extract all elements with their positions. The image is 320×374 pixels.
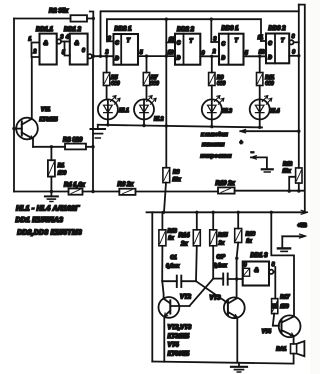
LED HL1 bbox=[98, 96, 120, 125]
wire top-left rail to R2 bbox=[14, 18, 71, 20]
svg-text:8: 8 bbox=[292, 34, 295, 40]
wire bottom rail bbox=[152, 362, 293, 364]
node rail B at x166 bbox=[165, 18, 168, 21]
svg-text:VT1: VT1 bbox=[41, 107, 50, 113]
resistor R6 bbox=[119, 189, 218, 195]
svg-text:КТ315Б: КТ315Б bbox=[40, 117, 59, 123]
svg-text:3: 3 bbox=[61, 35, 64, 41]
transistor Q2 VT2 bbox=[159, 281, 180, 362]
wire clock line DD1.2 out to DD2.1 bbox=[92, 55, 114, 57]
resistor R7 bbox=[143, 56, 149, 99]
wire DD1.1 out to DD1.2 in bbox=[61, 41, 70, 43]
resistor R5 bbox=[103, 56, 109, 99]
svg-text:12: 12 bbox=[259, 50, 265, 56]
resistor R8 bbox=[163, 168, 170, 213]
svg-text:к выводам: к выводам bbox=[201, 132, 228, 138]
wire riser x93 from top tick down to clock line bbox=[90, 12, 94, 57]
wire bubble to right vertical bbox=[294, 41, 299, 43]
wire supply arrow 2 bbox=[282, 234, 306, 238]
wire long vertical x93 bbox=[92, 56, 94, 191]
node rail A left leg bottom bbox=[99, 55, 102, 58]
node rail VT4 feed bbox=[270, 211, 273, 214]
wire DD2.1 Q out bbox=[138, 55, 175, 57]
wire DD1.3 out to R17 bbox=[273, 267, 275, 299]
svg-text:D: D bbox=[268, 55, 272, 61]
flip-flop DD2.1 bbox=[114, 34, 139, 65]
node R7 tap bbox=[145, 54, 148, 57]
resistor R9 bbox=[209, 56, 215, 99]
svg-text:КТ605Б: КТ605Б bbox=[168, 351, 190, 357]
svg-text:DD2 2: DD2 2 bbox=[177, 27, 195, 33]
flip-flop DD2.2 bbox=[175, 34, 200, 65]
svg-text:680: 680 bbox=[217, 81, 226, 87]
node R11 tap bbox=[258, 55, 261, 58]
svg-text:R17: R17 bbox=[280, 294, 289, 300]
wire minus arrow lead bbox=[251, 156, 267, 169]
op-amp U3 gate DD1.3 bbox=[243, 262, 269, 286]
svg-text:микросхем: микросхем bbox=[201, 153, 232, 159]
svg-text:D: D bbox=[222, 56, 226, 62]
wire diagonal C1 to VT3 base bbox=[196, 281, 227, 302]
pin 3 stub DD2.1 bbox=[107, 40, 114, 42]
resistor R10 bbox=[218, 187, 304, 193]
resistor R1 bbox=[48, 147, 55, 192]
svg-text:R3 820: R3 820 bbox=[63, 138, 83, 144]
wire VT3 collector vertical bbox=[236, 258, 238, 298]
node R2-right junction bbox=[92, 17, 95, 20]
svg-text:DD1 3: DD1 3 bbox=[251, 253, 269, 259]
node pin9 on vertical bbox=[297, 54, 300, 57]
svg-text:DD1.1: DD1.1 bbox=[36, 27, 54, 33]
svg-text:DD2 1: DD2 1 bbox=[115, 27, 133, 33]
svg-text:R6 2к: R6 2к bbox=[118, 182, 135, 188]
node rail R14 bbox=[195, 211, 198, 214]
svg-text:&: & bbox=[44, 41, 48, 47]
svg-text:R14: R14 bbox=[179, 233, 191, 239]
svg-text:R2 35к: R2 35к bbox=[49, 9, 69, 15]
node DD1.3 output bubble bbox=[269, 270, 273, 274]
LED HL3 bbox=[202, 96, 224, 127]
transistor Q1 VT1 bbox=[14, 57, 38, 147]
svg-text:4: 4 bbox=[65, 35, 69, 41]
node rail B at x211 bbox=[210, 18, 213, 21]
svg-text:6: 6 bbox=[82, 48, 85, 54]
svg-text:D: D bbox=[115, 56, 119, 62]
speaker BA1 bbox=[291, 341, 305, 363]
capacitor C2 bbox=[213, 274, 243, 285]
svg-text:5: 5 bbox=[62, 50, 65, 56]
node rail R1 bottom bbox=[50, 190, 53, 193]
svg-text:51: 51 bbox=[272, 304, 278, 310]
flip-flop DD3.1 bbox=[219, 34, 244, 65]
wire bottom section top rail bbox=[147, 211, 304, 213]
wire right outer vertical bbox=[299, 5, 305, 212]
LED HL4 bbox=[250, 96, 272, 128]
resistor R14 bbox=[193, 212, 200, 281]
node HL3 bottom bbox=[210, 125, 213, 128]
svg-text:DD3 1: DD3 1 bbox=[222, 26, 240, 32]
svg-text:8: 8 bbox=[272, 262, 275, 268]
node HL2 bottom bbox=[142, 124, 145, 127]
arrow +5V right bbox=[301, 210, 307, 214]
node x166 on common line bbox=[165, 124, 168, 127]
svg-text:BA1: BA1 bbox=[276, 347, 286, 353]
svg-text:HL1 - HL4 АЛ102Г: HL1 - HL4 АЛ102Г bbox=[16, 206, 80, 213]
node VT1 base on frame bbox=[12, 127, 15, 130]
svg-text:КТ315Б: КТ315Б bbox=[168, 334, 190, 340]
ground chassis bar minus bbox=[262, 169, 273, 172]
node rail R8 bbox=[162, 211, 165, 214]
svg-text:R13: R13 bbox=[168, 229, 177, 235]
wire rail A feedback top bbox=[101, 11, 299, 56]
pin 11 stub DD2.2 bbox=[166, 41, 175, 43]
svg-text:R10 2к: R10 2к bbox=[216, 181, 236, 187]
svg-text:&: & bbox=[254, 268, 258, 274]
node DD1.2 output bubble bbox=[88, 54, 92, 58]
svg-text:9: 9 bbox=[292, 50, 295, 56]
svg-text:DD1 К155ЛА3: DD1 К155ЛА3 bbox=[16, 217, 64, 224]
resistor R16 bbox=[235, 212, 242, 258]
resistor R4 bbox=[69, 189, 120, 195]
wire pin 9 stub bbox=[289, 55, 299, 57]
node collector R16 junction bbox=[235, 257, 238, 260]
svg-text:VT3: VT3 bbox=[210, 296, 222, 302]
svg-text:1к: 1к bbox=[246, 239, 252, 245]
wire right inner vertical bbox=[298, 5, 300, 168]
svg-text:C: C bbox=[177, 40, 181, 46]
pin 3 stub DD3.1 bbox=[211, 41, 219, 43]
node DD1.1 output bubble bbox=[57, 39, 61, 43]
svg-text:680: 680 bbox=[111, 81, 120, 87]
node rail x93 bbox=[91, 190, 94, 193]
svg-text:R4 1,6к: R4 1,6к bbox=[64, 182, 86, 188]
resistor R2 bbox=[71, 15, 94, 21]
op-amp U1 gate DD1.1 body bbox=[40, 34, 57, 65]
svg-text:&: & bbox=[75, 41, 79, 47]
ground at common line left end bbox=[91, 125, 106, 138]
svg-text:DD1 2: DD1 2 bbox=[64, 27, 82, 33]
LED HL2 bbox=[134, 96, 156, 125]
transistor Q4 VT4 bbox=[279, 315, 301, 344]
svg-text:2: 2 bbox=[105, 50, 109, 56]
node R12 tap bottom bbox=[288, 189, 291, 192]
node rail R16 bbox=[237, 211, 240, 214]
svg-text:10к: 10к bbox=[173, 177, 182, 183]
svg-text:0,1мк: 0,1мк bbox=[166, 263, 180, 269]
svg-text:180: 180 bbox=[58, 171, 67, 177]
node x166 on Q wire bbox=[165, 54, 168, 57]
svg-text:D: D bbox=[177, 56, 181, 62]
svg-text:DD2,DD3 К155ТМ3: DD2,DD3 К155ТМ3 bbox=[17, 229, 82, 236]
wire long vertical x166 bbox=[165, 19, 167, 168]
input square DD1.3 bbox=[243, 268, 249, 276]
svg-text:1: 1 bbox=[29, 37, 32, 43]
wire LED common line bbox=[98, 125, 262, 128]
wire bottom rail left bbox=[14, 191, 69, 193]
svg-text:С1: С1 bbox=[170, 255, 177, 261]
svg-text:DD3 2: DD3 2 bbox=[269, 26, 287, 32]
ground chassis at arrow2 bbox=[278, 236, 290, 251]
pin 11 stub DD3.2 bbox=[261, 40, 266, 42]
wire rail B clock distribution bbox=[107, 19, 261, 42]
node R9 tap bbox=[210, 55, 213, 58]
svg-text:12: 12 bbox=[168, 50, 174, 56]
node clock x93 bbox=[92, 55, 95, 58]
svg-text:C: C bbox=[268, 41, 272, 47]
svg-text:R16: R16 bbox=[246, 232, 255, 238]
wire plus supply arrow to chips bbox=[240, 130, 298, 133]
resistor R3 bbox=[33, 144, 93, 150]
resistor R12 bbox=[289, 168, 302, 191]
svg-text:HL2: HL2 bbox=[154, 117, 164, 123]
node R3 right junction bbox=[91, 145, 94, 148]
svg-text:2к: 2к bbox=[218, 241, 225, 247]
svg-text:R8: R8 bbox=[173, 169, 180, 175]
capacitor C1 bbox=[162, 276, 196, 287]
svg-text:R1: R1 bbox=[58, 163, 65, 169]
svg-text:C: C bbox=[115, 41, 119, 47]
node C2 line collector cross bbox=[235, 277, 238, 280]
svg-text:2к: 2к bbox=[180, 242, 188, 248]
node rail R15 bbox=[212, 211, 215, 214]
svg-text:10к: 10к bbox=[283, 169, 292, 175]
wire DD3.1 Q out bbox=[244, 55, 267, 57]
svg-text:2: 2 bbox=[212, 49, 216, 55]
resistor R15 bbox=[210, 212, 217, 278]
wire DD1.2 input tie pins 4,5 bbox=[65, 42, 70, 56]
svg-text:3: 3 bbox=[214, 37, 217, 43]
svg-text:VT2: VT2 bbox=[180, 295, 192, 301]
svg-text:0,1мк: 0,1мк bbox=[214, 263, 228, 269]
svg-text:680: 680 bbox=[150, 81, 159, 87]
resistor R13 bbox=[159, 212, 166, 281]
svg-text:5: 5 bbox=[140, 50, 143, 56]
transistor Q3 VT3 bbox=[224, 297, 245, 362]
svg-text:VT4: VT4 bbox=[168, 342, 180, 348]
op-amp U2 gate DD1.2 body bbox=[70, 34, 88, 65]
node HL1 bottom bbox=[106, 123, 109, 126]
svg-text:HL4: HL4 bbox=[270, 109, 280, 115]
resistor R11 bbox=[257, 56, 263, 99]
node R12 bottom bbox=[297, 189, 300, 192]
wire DD2.2 Q out bbox=[200, 55, 219, 57]
svg-text:−: − bbox=[251, 150, 254, 156]
svg-text:2: 2 bbox=[33, 49, 37, 55]
node clock x106.6 R5 tap bbox=[105, 55, 108, 58]
node inner vertical at plus arrow bbox=[297, 130, 300, 133]
wire bottom section left frame bbox=[151, 212, 153, 361]
svg-text:11: 11 bbox=[169, 37, 174, 43]
resistor R17 bbox=[272, 299, 279, 326]
svg-text:R12: R12 bbox=[283, 162, 292, 168]
node R3-R1 junction bbox=[50, 145, 53, 148]
svg-text:1к: 1к bbox=[168, 236, 174, 242]
node DD3.2 inverted output bubble bbox=[289, 40, 293, 44]
node HL4 bottom bbox=[258, 126, 261, 129]
wire DD1.1 input tie pins 1,2 bbox=[32, 43, 40, 58]
svg-text:3: 3 bbox=[108, 36, 111, 42]
svg-text:11: 11 bbox=[258, 35, 263, 41]
svg-text:C: C bbox=[222, 42, 226, 48]
svg-text:С2*: С2* bbox=[217, 255, 226, 261]
svg-text:питания: питания bbox=[202, 142, 224, 148]
ground bottom rail bbox=[231, 363, 247, 372]
flip-flop DD3.2 bbox=[266, 34, 289, 64]
wire VT2 base lead bbox=[171, 305, 190, 307]
wire diagonal C2 to VT2 base bbox=[190, 279, 214, 306]
svg-text:680: 680 bbox=[265, 81, 274, 87]
svg-text:VT4: VT4 bbox=[262, 329, 271, 335]
svg-text:150: 150 bbox=[280, 304, 289, 310]
svg-text:+: + bbox=[240, 140, 243, 146]
svg-text:R15: R15 bbox=[218, 233, 227, 239]
wire left frame vertical bbox=[13, 19, 15, 192]
wire VT4 collector feed bbox=[271, 212, 294, 316]
svg-text:HL3: HL3 bbox=[223, 109, 233, 115]
ground below R1 bbox=[45, 192, 58, 202]
svg-text:VT2,VT3: VT2,VT3 bbox=[168, 325, 192, 331]
svg-text:+5В: +5В bbox=[298, 223, 308, 229]
svg-text:HL1: HL1 bbox=[119, 108, 129, 114]
